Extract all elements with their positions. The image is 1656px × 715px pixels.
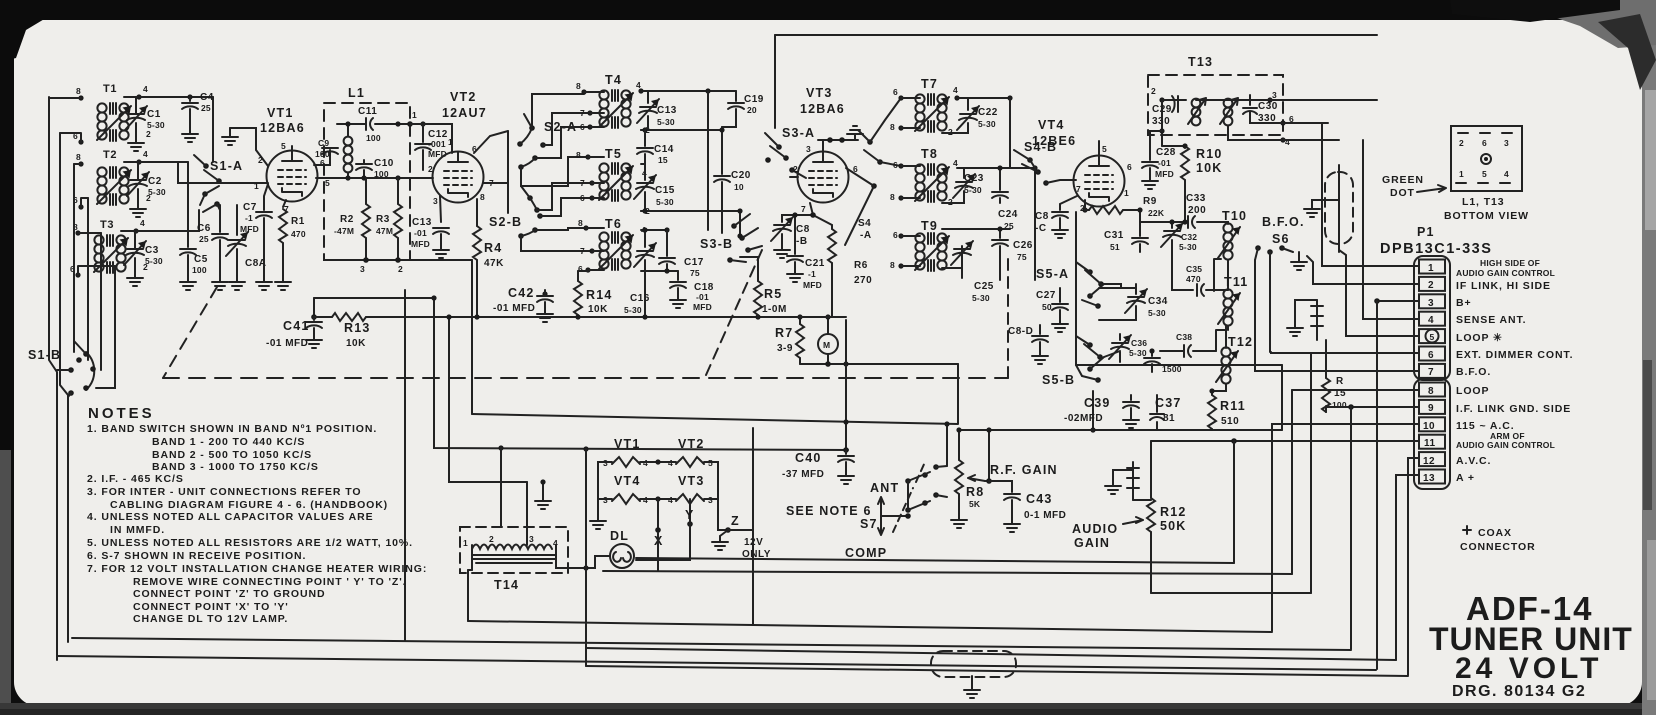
svg-text:5: 5: [281, 141, 286, 151]
wire S2B to T5 pin6: [540, 198, 592, 216]
capacitor C8-D: [1039, 325, 1041, 334]
svg-text:24 VOLT: 24 VOLT: [1455, 652, 1602, 685]
svg-text:C8: C8: [796, 224, 810, 235]
grid cap VT3: [818, 140, 858, 151]
ground C27: [1052, 318, 1068, 332]
wire x959: [958, 430, 960, 460]
audio coax gnd: [1113, 470, 1133, 480]
coil box L1 (dashed): [324, 103, 410, 260]
capacitor C9: [322, 148, 338, 154]
svg-text:Z: Z: [731, 514, 740, 528]
svg-text:20: 20: [747, 105, 757, 115]
wire T7 pin4 right: [968, 97, 1010, 99]
wire busE: [72, 638, 1351, 650]
dashed gang S3: [706, 250, 762, 375]
wire VT3 grid: [790, 176, 798, 178]
wire R14 top: [578, 270, 588, 271]
svg-text:5-30: 5-30: [624, 305, 642, 315]
svg-text:3-9: 3-9: [777, 343, 793, 354]
wire T1 pin4 to C4: [139, 96, 213, 98]
heater VT4: [612, 494, 640, 504]
svg-text:BAND 3 - 1000 TO 1750 KC/S: BAND 3 - 1000 TO 1750 KC/S: [152, 461, 319, 473]
wire R10 top: [1162, 145, 1185, 147]
svg-text:11: 11: [1424, 438, 1436, 449]
svg-text:T14: T14: [494, 578, 519, 592]
svg-text:10: 10: [734, 182, 744, 192]
capacitor C43: [1004, 494, 1020, 500]
svg-text:GREEN: GREEN: [1382, 174, 1424, 186]
svg-text:IF LINK, HI SIDE: IF LINK, HI SIDE: [1456, 280, 1551, 292]
ground grid shield: [229, 128, 231, 131]
coil T13b: [1224, 99, 1233, 108]
switch S7 comp: [905, 492, 947, 513]
svg-text:T5: T5: [605, 147, 622, 161]
svg-text:7: 7: [580, 108, 585, 118]
svg-text:12: 12: [1423, 456, 1435, 467]
svg-text:Y: Y: [685, 508, 695, 522]
svg-text:3: 3: [1504, 138, 1509, 148]
switch S4-B: [1014, 150, 1076, 186]
svg-text:2: 2: [398, 264, 403, 274]
transformer T5: [599, 163, 633, 201]
svg-text:-02MFD: -02MFD: [1064, 413, 1103, 424]
svg-text:C21: C21: [805, 258, 825, 269]
svg-text:C3: C3: [145, 245, 159, 256]
wire T1 pin8 left: [49, 97, 81, 99]
svg-text:1: 1: [254, 181, 259, 191]
resistor R3: [397, 178, 399, 204]
svg-text:2: 2: [146, 129, 151, 139]
wire bus x1035: [1034, 168, 1036, 280]
svg-text:8: 8: [576, 150, 581, 160]
coil T13a: [1192, 99, 1201, 108]
svg-text:S3-B: S3-B: [700, 237, 733, 251]
svg-text:R5: R5: [764, 287, 782, 301]
wire T2 pin4 right: [139, 161, 188, 163]
svg-text:5: 5: [1102, 144, 1107, 154]
svg-text:SEE NOTE 6: SEE NOTE 6: [786, 504, 872, 518]
wire VT1 pin6 to L1: [314, 150, 330, 165]
wire x947: [946, 424, 948, 466]
wire Z: [718, 481, 728, 530]
capacitor C41: [313, 317, 315, 320]
transformer T8: [915, 164, 949, 202]
wire pin7 to S2-B: [483, 131, 508, 213]
terminal 11: [1419, 435, 1445, 449]
wire t5: [1339, 250, 1419, 336]
svg-text:-37 MFD: -37 MFD: [782, 469, 824, 480]
svg-text:MFD: MFD: [803, 280, 822, 290]
wire v1311: [1310, 353, 1312, 593]
trimmer C36: [1119, 334, 1121, 340]
svg-text:C26: C26: [1013, 240, 1033, 251]
terminal 8: [1419, 383, 1445, 397]
ground C28: [1142, 175, 1158, 189]
green dot arrow: [1417, 185, 1446, 192]
trimmer C16: [641, 230, 645, 247]
svg-text:C13: C13: [412, 217, 432, 228]
switch S5-B: [1076, 336, 1104, 383]
wire S7 junction: [881, 481, 908, 516]
svg-text:C8-D: C8-D: [1008, 326, 1033, 337]
svg-text:R11: R11: [1220, 399, 1246, 413]
svg-text:5-30: 5-30: [145, 256, 163, 266]
trimmer C8-B: [782, 215, 813, 222]
wire T14 pin2 drop: [500, 448, 502, 527]
wire T2 pin4 to S1A: [178, 162, 268, 183]
svg-text:S5-B: S5-B: [1042, 373, 1075, 387]
wire VT3 plate to S4A: [846, 168, 874, 186]
svg-text:3: 3: [529, 534, 534, 544]
wire T8 pin4 right: [964, 167, 1035, 169]
svg-text:C16: C16: [630, 293, 650, 304]
svg-text:R: R: [1336, 376, 1344, 387]
trimmer C32: [1171, 222, 1173, 228]
connector bottom view box: [1451, 126, 1522, 191]
svg-text:6: 6: [580, 193, 585, 203]
svg-text:C13: C13: [657, 105, 677, 116]
junction C41: [311, 314, 317, 320]
coax connector symbol: [1463, 526, 1471, 534]
svg-text:B.F.O.: B.F.O.: [1262, 215, 1305, 229]
svg-text:-01 MFD: -01 MFD: [266, 338, 308, 349]
svg-text:1: 1: [1459, 169, 1464, 179]
pot arrow R8: [968, 475, 985, 481]
motor M: [818, 334, 838, 354]
svg-text:3: 3: [806, 144, 811, 154]
svg-text:10K: 10K: [1196, 161, 1223, 175]
pin 5 stub VT4: [1098, 141, 1100, 157]
wire busC: [1151, 592, 1311, 594]
svg-text:C39: C39: [1084, 396, 1111, 410]
svg-text:4: 4: [953, 85, 958, 95]
svg-text:C6: C6: [197, 223, 211, 234]
svg-text:AUDIO: AUDIO: [1072, 522, 1118, 536]
svg-text:C10: C10: [374, 158, 394, 169]
terminal 9: [1419, 400, 1445, 414]
wire top frame: [775, 34, 1377, 36]
wire Y to DL: [636, 524, 690, 560]
capacitor C39: [1130, 395, 1132, 400]
svg-text:C20: C20: [731, 170, 751, 181]
resistor R14: [577, 271, 579, 281]
svg-text:1: 1: [412, 110, 417, 120]
svg-text:4: 4: [140, 218, 145, 228]
svg-text:5-30: 5-30: [1179, 242, 1197, 252]
svg-text:2. I.F. - 465 KC/S: 2. I.F. - 465 KC/S: [87, 473, 184, 485]
wire v1234: [1233, 441, 1235, 563]
ground R8: [951, 514, 967, 528]
svg-text:T10: T10: [1222, 209, 1247, 223]
svg-text:MFD: MFD: [411, 239, 430, 249]
svg-text:8: 8: [480, 192, 485, 202]
svg-text:VT4: VT4: [1038, 118, 1065, 132]
ground C3: [127, 272, 143, 286]
trimmer C22: [957, 98, 968, 110]
pin 1 L1: [407, 121, 413, 127]
svg-text:R.F. GAIN: R.F. GAIN: [990, 463, 1058, 477]
svg-text:-01: -01: [696, 292, 709, 302]
wire S1-A region: [212, 97, 214, 162]
wire T14 right: [556, 545, 586, 568]
svg-text:7: 7: [1076, 184, 1081, 194]
svg-text:C5: C5: [194, 254, 208, 265]
svg-text:T7: T7: [921, 77, 938, 91]
wire x405: [404, 290, 406, 641]
svg-text:5: 5: [325, 178, 330, 188]
svg-text:MFD: MFD: [693, 302, 712, 312]
wire T2 pin6 left: [81, 198, 88, 207]
svg-text:1. BAND SWITCH SHOWN IN BAND: 1. BAND SWITCH SHOWN IN BAND Nº1 POSITIO…: [87, 423, 377, 435]
wire T9 pin4 right: [942, 228, 1010, 230]
wire pin3 to C13: [440, 196, 441, 222]
svg-text:C1: C1: [147, 109, 161, 120]
ground S6: [1298, 252, 1300, 256]
wire busB: [603, 571, 1292, 574]
ground C42: [537, 308, 553, 322]
coil T10: [1218, 223, 1240, 259]
svg-text:5-30: 5-30: [1129, 348, 1147, 358]
svg-text:VT4: VT4: [614, 474, 641, 488]
wire avc y298: [314, 297, 434, 299]
resistor R13: [314, 316, 332, 318]
terminal 5: [1419, 329, 1445, 343]
svg-text:-01: -01: [414, 228, 427, 238]
svg-text:C2: C2: [148, 176, 162, 187]
capacitor C35: [1172, 248, 1228, 290]
svg-text:7: 7: [1428, 367, 1434, 378]
svg-text:VT1: VT1: [267, 106, 294, 120]
svg-text:2: 2: [1428, 280, 1434, 291]
capacitor C4: [189, 97, 191, 101]
svg-text:4: 4: [143, 84, 148, 94]
trimmer C23: [957, 168, 964, 178]
svg-text:C4: C4: [200, 92, 214, 103]
top-right gray blotch: [1545, 0, 1656, 48]
svg-text:81: 81: [1163, 413, 1175, 424]
svg-text:S4-B: S4-B: [1024, 140, 1057, 154]
svg-text:1: 1: [463, 538, 468, 548]
tube VT2 12AU7: [433, 152, 484, 203]
wire bus y317 ext: [783, 316, 846, 318]
resistor R8: [955, 460, 963, 494]
capacitor C10: [363, 160, 365, 163]
ground C40: [838, 470, 854, 484]
svg-text:4: 4: [953, 158, 958, 168]
capacitor C6: [219, 205, 221, 232]
transformer T6: [599, 232, 633, 270]
switch S4-A: [845, 130, 883, 245]
terminal 7: [1419, 364, 1445, 378]
svg-text:6: 6: [580, 122, 585, 132]
svg-text:T8: T8: [921, 147, 938, 161]
svg-text:-001: -001: [428, 139, 446, 149]
svg-text:-B: -B: [796, 236, 808, 247]
resistor R9: [1082, 207, 1087, 212]
wire t9 drop: [1350, 407, 1352, 649]
junction bus: [575, 314, 580, 319]
transformer T14 box (dashed): [460, 527, 568, 573]
wire y430 link: [960, 429, 1093, 431]
wire bus y317: [423, 316, 783, 318]
ground C6: [212, 276, 228, 290]
wire S2B to T6 pin7: [521, 236, 592, 251]
svg-text:S3-A: S3-A: [782, 126, 815, 140]
wire T14 pin3 up: [526, 482, 528, 545]
wire VT1 pin1 to C7: [264, 184, 268, 210]
svg-text:1: 1: [1428, 263, 1434, 274]
feeder wire T1-6 down to S1-B: [60, 133, 68, 642]
wire T4 left pins: [584, 92, 604, 127]
wire T9 bottom region: [1000, 160, 1010, 280]
svg-text:T4: T4: [605, 73, 622, 87]
switch S3-B: [727, 214, 762, 263]
svg-text:51: 51: [1110, 242, 1120, 252]
svg-text:5-30: 5-30: [147, 120, 165, 130]
svg-text:12BA6: 12BA6: [800, 102, 845, 116]
wire to C43: [989, 481, 1012, 492]
svg-text:5: 5: [1430, 332, 1435, 342]
wire R7 M: [800, 317, 828, 364]
svg-text:8: 8: [76, 152, 81, 162]
wire t8: [1292, 389, 1419, 391]
wire x468: [468, 570, 472, 621]
svg-text:100: 100: [366, 133, 381, 143]
svg-text:7: 7: [801, 204, 806, 214]
svg-text:C19: C19: [744, 94, 764, 105]
wire T4 pin2 right: [641, 129, 722, 131]
tube VT3 12BA6: [798, 152, 849, 203]
svg-text:C7: C7: [243, 202, 257, 213]
wire T12 bottom: [1212, 384, 1226, 391]
wire T5 pin2 right: [641, 210, 740, 212]
svg-text:-01 MFD: -01 MFD: [493, 303, 535, 314]
pin 3 L1: [363, 257, 369, 263]
svg-text:12AU7: 12AU7: [442, 106, 487, 120]
svg-text:50: 50: [1042, 302, 1052, 312]
lamp DL: [610, 544, 634, 568]
wire t11: [1151, 440, 1419, 442]
terminal 2: [1419, 277, 1445, 291]
coil box T13 (dashed): [1148, 75, 1283, 135]
wire T11 bottom: [1227, 326, 1229, 330]
capacitor C21: [794, 215, 796, 254]
svg-text:BOTTOM VIEW: BOTTOM VIEW: [1444, 210, 1529, 222]
capacitor C11: [337, 123, 366, 125]
wire T13 pin2 down: [1161, 100, 1163, 146]
capacitor C18: [677, 271, 679, 280]
resistor R5: [757, 257, 759, 281]
transformer T9: [915, 233, 949, 271]
ground C18: [670, 294, 686, 308]
svg-text:COAX: COAX: [1478, 527, 1512, 539]
svg-text:8: 8: [890, 192, 895, 202]
top black band: [0, 0, 1656, 20]
svg-text:3: 3: [433, 196, 438, 206]
top-left black wedge: [0, 18, 46, 62]
wire T5 pin4: [641, 163, 645, 165]
wire y430: [1093, 429, 1282, 431]
svg-text:C11: C11: [358, 106, 377, 117]
svg-text:-C: -C: [1035, 223, 1047, 234]
bottom edge scan strip: [0, 703, 1656, 715]
svg-text:VT3: VT3: [678, 474, 705, 488]
wire bus x1010: [1009, 98, 1011, 168]
terminal 1: [1419, 260, 1445, 274]
wire busF: [57, 656, 1376, 670]
left gray edge lower: [0, 450, 11, 704]
feeder wire T3-6 down: [96, 266, 115, 388]
svg-text:C22: C22: [978, 107, 998, 118]
svg-text:MFD: MFD: [1155, 169, 1174, 179]
svg-text:S7: S7: [860, 517, 878, 531]
ground C8D: [1032, 350, 1048, 364]
switch S2-A: [517, 114, 546, 170]
svg-text:470: 470: [1186, 274, 1201, 284]
svg-text:C15: C15: [655, 185, 675, 196]
resistor R15: [1325, 340, 1327, 378]
capacitor C38: [1160, 350, 1184, 352]
feeder wire T1-8 down to S1-B: [49, 97, 57, 660]
feeder wire T3-8 down: [100, 233, 102, 370]
transformer T1: [97, 103, 131, 141]
left black edge: [0, 0, 14, 450]
svg-text:T1: T1: [103, 83, 117, 95]
wire T2 pin4: [124, 162, 139, 203]
switch S1-A: [194, 155, 222, 212]
svg-text:COMP: COMP: [845, 546, 887, 560]
svg-text:B+: B+: [1456, 297, 1472, 309]
svg-text:SENSE ANT.: SENSE ANT.: [1456, 314, 1526, 326]
svg-text:8: 8: [1428, 386, 1434, 397]
svg-text:BAND 2 - 500 TO 1050 KC/: BAND 2 - 500 TO 1050 KC/S: [152, 449, 312, 461]
wire DL left: [586, 556, 610, 568]
ground heater: [590, 515, 606, 529]
svg-text:C34: C34: [1148, 296, 1168, 307]
wire S1-A to C6/C8A: [200, 194, 220, 210]
wire t6: [1271, 352, 1419, 353]
wire v1292: [1291, 390, 1293, 574]
svg-text:4: 4: [1285, 137, 1290, 147]
svg-text:BAND 1 - 200 TO 440 KC/: BAND 1 - 200 TO 440 KC/S: [152, 436, 305, 448]
svg-text:1-0M: 1-0M: [762, 304, 787, 315]
svg-text:10K: 10K: [346, 338, 366, 349]
ground C13: [433, 244, 449, 258]
svg-text:C35: C35: [1186, 264, 1202, 274]
svg-text:R3: R3: [376, 214, 390, 225]
trimmer C13b: [641, 91, 648, 103]
coil L1 winding: [344, 137, 353, 146]
ground C41: [306, 334, 322, 348]
svg-text:3. FOR INTER - UNIT CONNECT: 3. FOR INTER - UNIT CONNECTIONS REFER TO: [87, 486, 361, 498]
wire T6 pin4 right: [645, 229, 667, 231]
svg-text:-A: -A: [860, 230, 872, 241]
svg-text:2: 2: [428, 164, 433, 174]
wire S4B from T8: [1030, 160, 1035, 168]
svg-text:A.V.C.: A.V.C.: [1456, 455, 1491, 467]
wire x753: [752, 428, 754, 625]
capacitor C33: [1140, 221, 1188, 223]
bottom view center dot: [1481, 154, 1491, 164]
svg-text:2: 2: [793, 164, 798, 174]
svg-text:10: 10: [1423, 421, 1435, 432]
heater wiring frame: [598, 462, 718, 499]
pot arrow R12: [1123, 517, 1143, 524]
capacitor C37: [1150, 395, 1164, 430]
ground C21: [787, 268, 803, 282]
svg-text:T2: T2: [103, 149, 117, 161]
svg-text:R7: R7: [775, 326, 793, 340]
